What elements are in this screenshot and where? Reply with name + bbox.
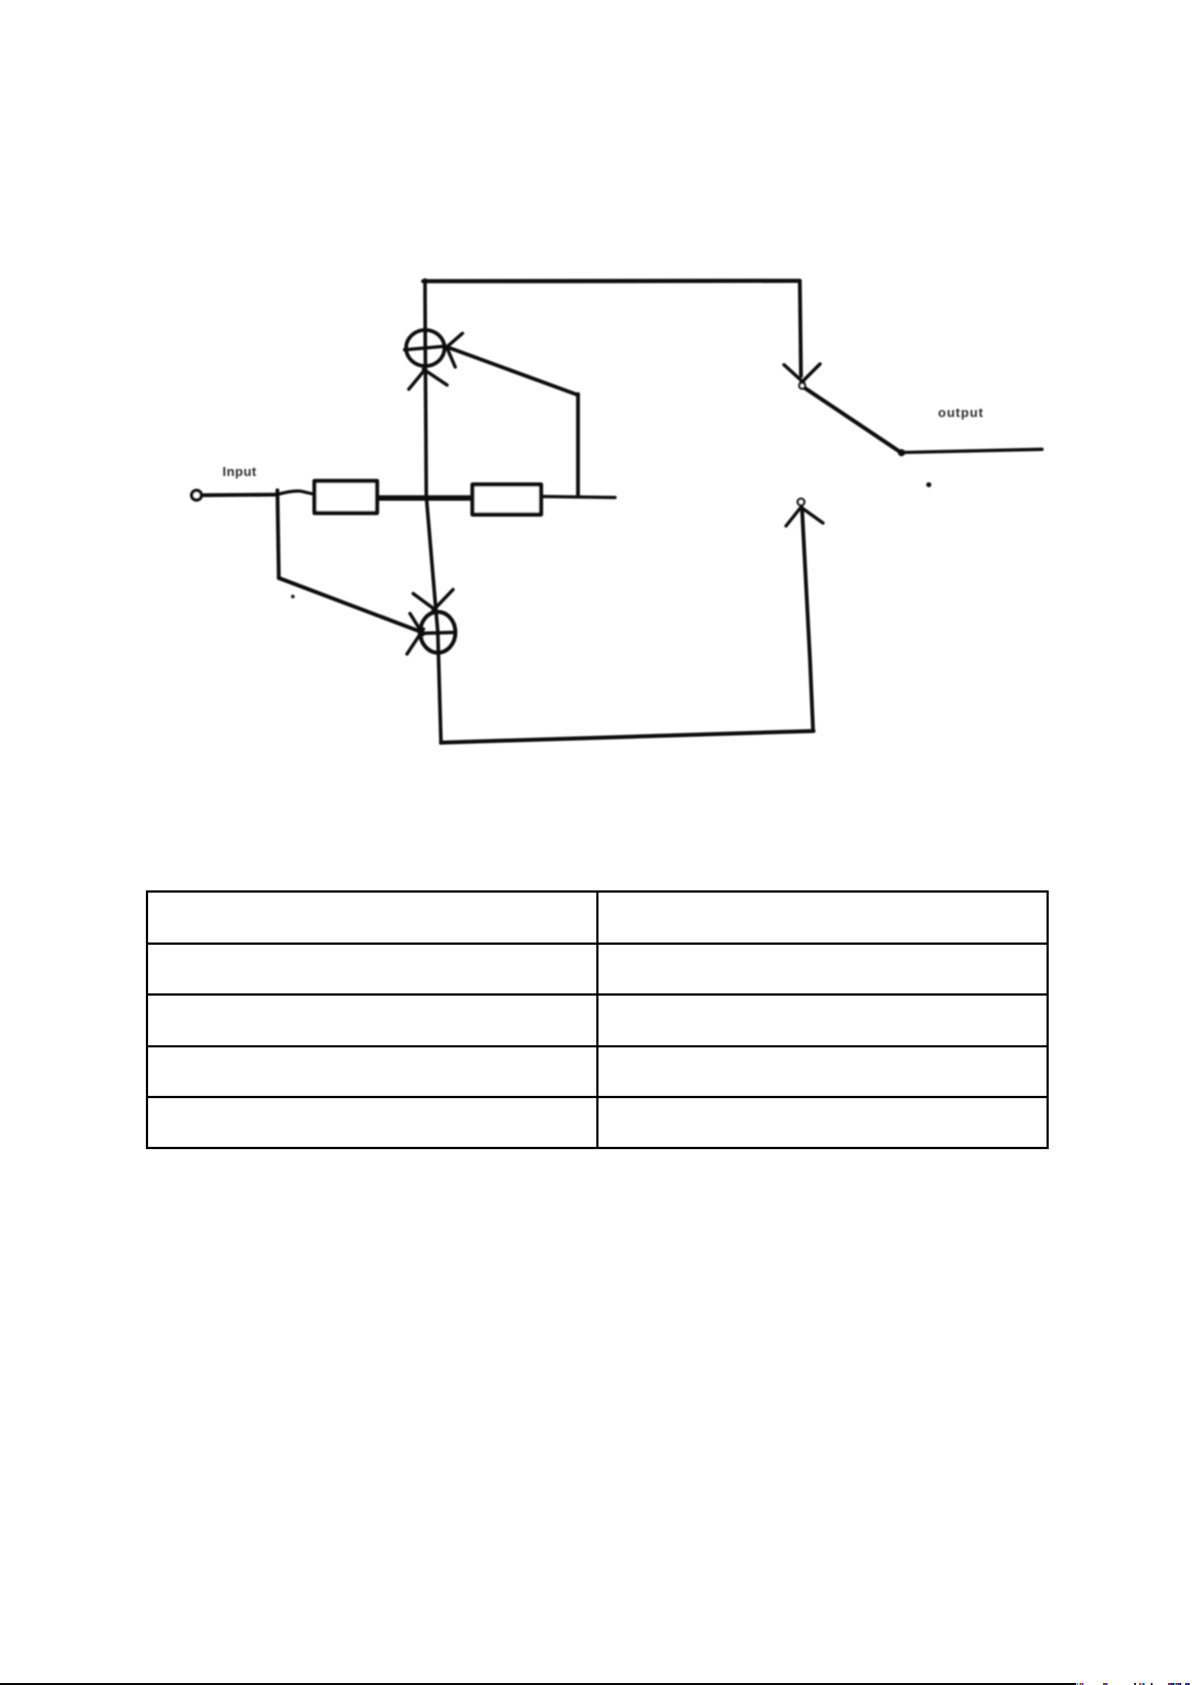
wire: junction to R1 [277, 491, 313, 495]
modulator M2 circle [420, 612, 455, 653]
modulator M1 circle [406, 330, 444, 366]
table top border [146, 890, 1049, 892]
table row divider 1 [146, 942, 1049, 944]
svg-text:output: output [938, 405, 984, 420]
table row divider 2 [146, 993, 1049, 995]
table [146, 891, 1049, 1150]
wire: top feedback wire [423, 279, 799, 284]
M2 top arrowhead [413, 590, 453, 611]
table left border [146, 891, 148, 1150]
node: stray dot right [926, 482, 931, 487]
node: switch S1 pivot [799, 383, 805, 389]
table row divider 4 [146, 1096, 1049, 1098]
M2 arrow barbs [407, 614, 424, 655]
table row divider 3 [146, 1045, 1049, 1047]
svg-text:Input: Input [223, 464, 257, 479]
resistor R1 [315, 481, 378, 513]
wire: top right vertical into switch S1 [800, 281, 801, 376]
wire: thick segment R1 to R2 [379, 495, 471, 501]
wire: branch diagonal from input junction to M2 [279, 578, 420, 631]
M1 arrow barbs [446, 333, 462, 367]
table column divider [596, 891, 598, 1150]
wire: feedback vertical drop from modulator M1 arrow [576, 394, 580, 495]
table right border [1046, 891, 1048, 1150]
clipped status text fragments [1077, 1683, 1190, 1685]
switch S1 arrowhead [784, 364, 820, 384]
wire: output [902, 449, 1043, 452]
switch S2 arrowhead [786, 507, 823, 527]
wire: bottom return wire [441, 731, 814, 743]
wire: main vertical line through modulators [425, 280, 441, 743]
wire: arrow from feedback into M1 [447, 347, 578, 395]
node: input branch junction [277, 490, 278, 578]
modulator M1 chord [405, 346, 446, 350]
node: input terminal [192, 490, 202, 500]
modulator M2 chord [420, 632, 456, 633]
wire: switch S2 blade down to bottom wire [802, 508, 813, 729]
resistor R2 [473, 485, 542, 515]
page bottom rule [0, 1683, 1076, 1685]
table bottom border [146, 1147, 1049, 1149]
node: switch S2 contact [798, 499, 805, 506]
switch S1 blade [806, 389, 902, 453]
wire: R2 to output stub [543, 497, 615, 498]
modulator M1 cross strokes [409, 369, 447, 389]
wire: input to junction node [204, 493, 278, 497]
node: output junction dot [898, 449, 905, 456]
node: stray dot left [291, 595, 295, 599]
